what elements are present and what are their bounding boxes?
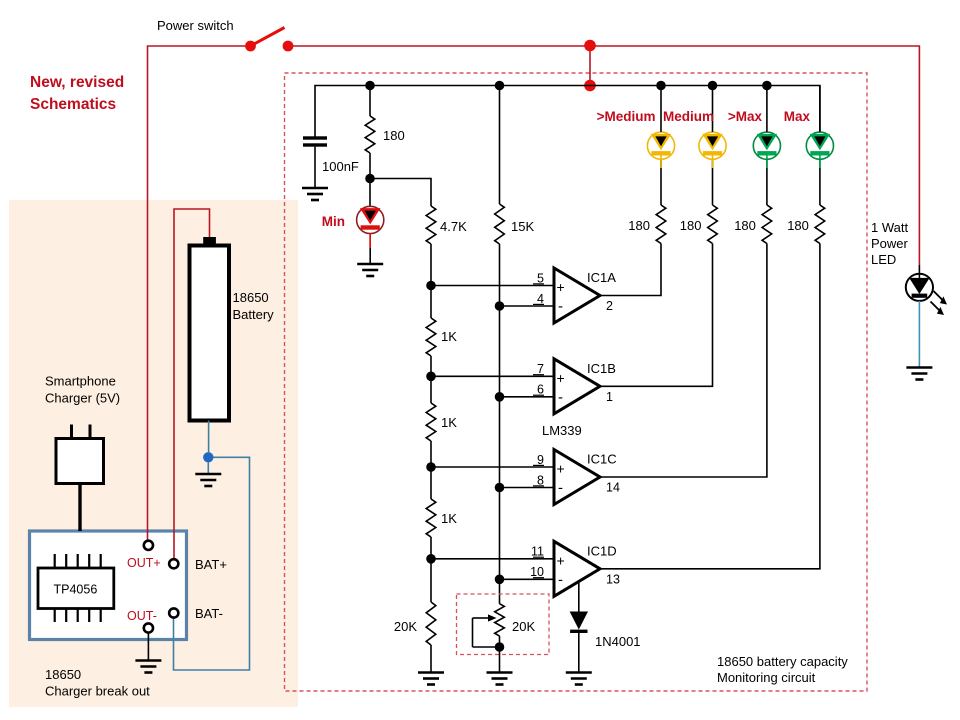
svg-text:Power switch: Power switch [157,18,234,33]
resistor 180 channel 1 [656,205,666,244]
node - bus junction LED3 [762,81,772,91]
wire - bus to R1 [369,86,371,117]
svg-text:LM339: LM339 [542,423,582,438]
svg-text:+: + [557,370,565,386]
wire - R ladder seg6 [430,537,432,559]
label IC1B [587,361,616,376]
svg-text:180: 180 [734,218,756,233]
svg-text:11: 11 [531,545,544,559]
svg-text:7: 7 [537,362,544,376]
svg-text:New, revised: New, revised [30,74,124,91]
wire - IC1A - input [500,305,555,307]
label Medium [663,109,714,124]
beige breakout panel [9,200,298,707]
pin 1 label [606,390,613,404]
pin 6 label [533,383,544,397]
ground - below 20K [418,673,444,685]
wire - IC1C output to R/LED column [600,244,767,478]
svg-text:1K: 1K [441,511,457,526]
LED >Max [753,132,780,159]
wire - R ladder seg4 [430,441,432,467]
svg-text:1N4001: 1N4001 [595,634,641,649]
node A - ladder tap 1 [426,281,436,291]
op-amp IC1C [554,450,600,505]
ground - battery negative [195,474,221,486]
wire - LED1 to bus [660,86,662,132]
wire - LED4 to bus [819,86,821,132]
resistor R7 value label [441,511,457,526]
outer dashed box (monitoring circuit) [285,73,868,691]
wire - 20K to ground [430,645,432,673]
wire - LED3 to bus [766,86,768,132]
label Max [784,109,811,124]
node - battery negative [203,452,213,462]
label Min [322,214,345,229]
op-amp IC1B [554,359,600,414]
label IC1C [587,452,617,467]
wire - LED4 colored stub [819,155,821,168]
resistor R7 1K [426,499,436,537]
breakout caption [45,667,150,699]
svg-text:9: 9 [537,453,544,467]
wire - node to ground [207,462,209,474]
wire - R ladder seg5 [430,467,432,499]
wire - IC1C - input [500,487,555,489]
LED D5 1W power [906,274,933,301]
svg-text:1 Watt: 1 Watt [871,220,908,235]
battery B1 18650 [190,246,230,421]
pin 14 label [606,481,620,495]
op-amp IC1D [554,541,600,596]
wire - bus to R4 [499,86,501,205]
pin 8 label [533,473,544,487]
svg-text:-: - [558,571,563,588]
wire - R ladder seg2 [430,356,432,376]
node C - ladder tap 3 [426,462,436,472]
svg-text:100nF: 100nF [322,159,359,174]
resistor R6 1K [426,403,436,441]
resistor 180 label channel 3 [734,218,756,233]
svg-text:BAT+: BAT+ [195,557,227,572]
node D - ladder tap 4 [426,554,436,564]
wire - R ladder seg1 [430,286,432,319]
svg-text:Charger break out: Charger break out [45,684,150,699]
title text [30,74,124,113]
svg-text:18650: 18650 [45,667,81,682]
resistor 180 label channel 1 [628,218,650,233]
wire - R ladder seg3 [430,376,432,403]
circuit caption [717,654,848,685]
svg-text:180: 180 [628,218,650,233]
ground - below pot [487,673,513,685]
svg-text:OUT-: OUT- [127,609,157,623]
svg-text:20K: 20K [512,619,535,634]
svg-text:Medium: Medium [663,109,714,124]
light arrows [931,291,948,315]
svg-text:IC1D: IC1D [587,543,617,558]
diode D6 1N4001 [570,612,588,634]
resistor R8 20K [426,602,436,645]
svg-text:1K: 1K [441,415,457,430]
wire - LED2 to bus [712,86,714,132]
LED Max [806,132,833,159]
battery terminal [203,237,216,246]
charger plug [56,425,104,484]
pin 11 label [531,545,544,559]
ground - below OUT- [135,661,161,673]
pin 4 label [533,292,544,306]
svg-text:>Medium: >Medium [597,109,656,124]
terminal OUT+ [144,541,153,550]
node - ref tap IC1D- [495,575,505,585]
label IC1A [587,270,616,285]
node - ref tap IC1A- [495,301,505,311]
LED >Medium [647,132,674,159]
terminal BAT+ [169,559,178,568]
resistor R6 value label [441,415,457,430]
wire - IC1A + input [431,285,554,287]
wire - top supply bus [315,86,820,138]
resistor 180 channel 3 [762,205,772,244]
wire - LED1 colored stub [660,155,662,168]
wire - battery - blue [208,421,210,453]
wire - node to 4.7K [370,179,431,207]
battery label [233,290,275,322]
svg-text:OUT+: OUT+ [127,556,161,570]
label LM339 [542,423,582,438]
wire - IC1D + input [431,558,554,560]
ground - below power LED [906,368,932,380]
svg-text:IC1A: IC1A [587,270,616,285]
wire - LED3 colored stub [766,155,768,168]
svg-text:Max: Max [784,109,811,124]
resistor R8 value label [394,619,417,634]
resistor R3 4.7K [426,206,436,244]
wire - node to Min LED [369,179,371,207]
label IC1D [587,543,617,558]
resistor R4 15K [495,204,505,244]
ground - below Min LED [357,264,383,276]
pot wiper [473,614,500,647]
resistor R4 value label [511,219,534,234]
resistor 180 channel 2 [708,205,718,244]
node - ref tap IC1C- [495,483,505,493]
svg-text:14: 14 [606,481,620,495]
svg-text:Monitoring circuit: Monitoring circuit [717,670,816,685]
resistor R5 1K [426,318,436,356]
svg-text:13: 13 [606,572,620,586]
wire - IC1D to D6 [578,580,580,612]
svg-text:6: 6 [537,383,544,397]
svg-text:-: - [558,298,563,315]
svg-text:IC1C: IC1C [587,452,617,467]
svg-text:Power: Power [871,236,909,251]
svg-text:-: - [558,480,563,497]
pin 2 label [606,299,613,313]
wire - R to LED3 [766,160,768,206]
pin 10 label [530,565,544,579]
wire - R ladder seg7 [430,559,432,602]
svg-text:>Max: >Max [728,109,763,124]
svg-text:180: 180 [680,218,702,233]
node - bus junction LED2 [708,81,718,91]
svg-text:Smartphone: Smartphone [45,374,116,389]
svg-text:LED: LED [871,252,896,267]
power switch SW1 [245,28,293,52]
svg-text:Schematics: Schematics [30,96,116,113]
wire - charger cord [78,484,81,532]
svg-text:20K: 20K [394,619,417,634]
diode D6 label [595,634,641,649]
svg-text:180: 180 [383,128,405,143]
pin 5 label [533,271,544,285]
node - red junction on top wire [584,40,596,52]
wire - IC1B + input [431,375,554,377]
svg-text:15K: 15K [511,219,534,234]
wire - IC1A output to R/LED column [600,244,661,296]
svg-text:18650 battery capacity: 18650 battery capacity [717,654,848,669]
svg-text:-: - [558,389,563,406]
label >Medium [597,109,656,124]
wire - R to LED2 [712,160,714,206]
svg-text:+: + [557,279,565,295]
LED Medium [699,132,726,159]
label OUT+ [127,556,161,570]
wire - pot to ground [499,636,501,673]
svg-text:8: 8 [537,473,544,487]
resistor R1 180 (Min LED) [365,116,375,153]
pot value label [512,619,535,634]
node B - ladder tap 2 [426,372,436,382]
pin 7 label [533,362,544,376]
wire - battery + red [174,209,210,559]
terminal OUT- [144,623,153,632]
resistor 180 label channel 4 [787,218,809,233]
svg-text:+: + [557,552,565,568]
resistor R3 value label [440,219,467,234]
wire - OUT- to ground [147,633,149,661]
svg-text:18650: 18650 [233,290,269,305]
label BAT- [195,606,223,621]
wire - IC1C + input [431,466,554,468]
potentiometer VR1 20K [495,604,505,636]
capacitor C1 value label [322,159,359,174]
node - bus junction R4 [495,81,505,91]
charger label [45,374,120,406]
wire - D6 to ground [578,633,580,673]
resistor 180 channel 4 [815,205,825,244]
label >Max [728,109,763,124]
pin 13 label [606,572,620,586]
svg-text:Min: Min [322,214,345,229]
svg-text:BAT-: BAT- [195,606,223,621]
op-amp IC1A [554,268,600,323]
wire - 15K column [499,244,501,604]
label OUT- [127,609,157,623]
svg-text:4: 4 [537,292,544,306]
wire - LED2 colored stub [712,155,714,168]
resistor R5 value label [441,329,457,344]
capacitor C1 100nF [303,136,327,188]
wire - red V+ switch to power LED [288,46,919,274]
svg-text:2: 2 [606,299,613,313]
svg-text:Charger (5V): Charger (5V) [45,391,120,406]
wire - power LED to ground (blue) [918,301,920,368]
svg-text:1: 1 [606,390,613,404]
svg-text:180: 180 [787,218,809,233]
wire - IC1D output to R/LED column [600,244,820,569]
wire - red feed stub to bus [589,46,591,86]
power switch label [157,18,234,33]
svg-text:10: 10 [530,565,544,579]
label 1 Watt Power LED [871,220,909,267]
svg-text:+: + [557,461,565,477]
wire - Min LED to ground [369,234,371,265]
node - ref tap IC1B- [495,392,505,402]
node - pot wiper junction [495,642,505,652]
wire - IC1B output to R/LED column [600,244,713,387]
svg-text:IC1B: IC1B [587,361,616,376]
svg-text:Battery: Battery [233,307,275,322]
svg-text:1K: 1K [441,329,457,344]
wire - blue to BAT- [174,457,250,670]
svg-text:5: 5 [537,271,544,285]
node - R1/R2/LED junction [365,174,375,184]
wire - IC1D - input [500,578,555,580]
wire - IC1B - input [500,396,555,398]
node - red junction on bus [584,80,596,92]
wire - R to LED1 [660,160,662,206]
wire - R to LED4 [819,160,821,206]
resistor R1 value label [383,128,405,143]
ground - below D6 [566,673,592,685]
LED D1 Min (red) [357,206,384,233]
pot dashed box [457,594,550,655]
wire - red V+ from switch to OUT+ [148,46,251,540]
wire - R1 to node [369,153,371,179]
svg-text:4.7K: 4.7K [440,219,467,234]
pin 9 label [533,453,544,467]
IC U1 TP4056 [38,554,114,622]
terminal BAT- [169,608,178,617]
TP4056 board box [30,531,187,640]
node - bus junction R2 [365,81,375,91]
wire - R3 to node A [430,244,432,286]
label BAT+ [195,557,227,572]
node - bus junction LED1 [656,81,666,91]
svg-text:TP4056: TP4056 [54,583,98,597]
resistor 180 label channel 2 [680,218,702,233]
ground - below C1 [302,188,328,200]
